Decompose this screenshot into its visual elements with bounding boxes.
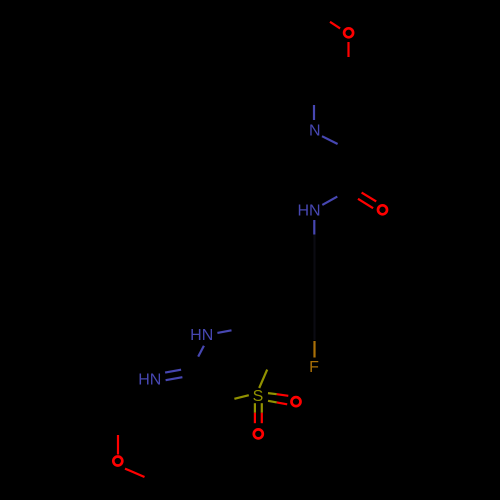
wire faint carbon chain vertical: [313, 235, 315, 341]
wire S=O right double line1 S half: [268, 393, 277, 394]
wire C=N double bond line 1: [165, 370, 181, 373]
wire S=O right double line2 S half: [268, 401, 277, 403]
wire S=O down double line1 O half: [254, 413, 256, 423]
svg-text:N: N: [309, 123, 321, 140]
wire C-F bond: [313, 341, 315, 358]
wire amide N-C bond: [322, 197, 337, 205]
wire C-O bond bottom vertical: [117, 435, 119, 455]
wire O-methyl bond bottom: [125, 469, 145, 477]
svg-text:F: F: [309, 359, 319, 376]
svg-text:HN: HN: [297, 202, 320, 219]
node O sulfonyl right: [292, 397, 301, 406]
wire C-N bond vertical: [313, 105, 315, 120]
wire HN ring bond down-left: [198, 346, 204, 357]
wire S=O down double line2 S half: [261, 403, 263, 413]
node O methoxy top: [344, 28, 353, 37]
node O methoxy bottom: [113, 457, 122, 466]
wire O-C bond top vertical: [347, 42, 349, 57]
wire HN ring bond right: [217, 330, 231, 333]
wire C-S bond left: [234, 395, 248, 399]
wire N-C bond diagonal: [322, 136, 338, 144]
wire S=O right double line1 O half: [277, 394, 289, 396]
wire S=O down double line1 S half: [254, 403, 256, 413]
svg-text:HN: HN: [138, 371, 161, 388]
node O sulfonyl down: [254, 429, 263, 438]
wire N-C ring bond below HN: [313, 220, 315, 235]
wire C=O double bond line 1: [362, 193, 377, 202]
wire C=N double bond line 2: [166, 377, 183, 380]
wire S=O down double line2 O half: [261, 413, 263, 423]
node O carbonyl: [378, 205, 387, 214]
svg-text:S: S: [253, 388, 264, 405]
wire S=O right double line2 O half: [277, 402, 287, 404]
wire C=O double bond line 2: [358, 199, 373, 208]
wire C-S bond upper: [259, 370, 267, 388]
wire methyl-O bond top: [330, 22, 340, 29]
svg-text:HN: HN: [190, 327, 213, 344]
